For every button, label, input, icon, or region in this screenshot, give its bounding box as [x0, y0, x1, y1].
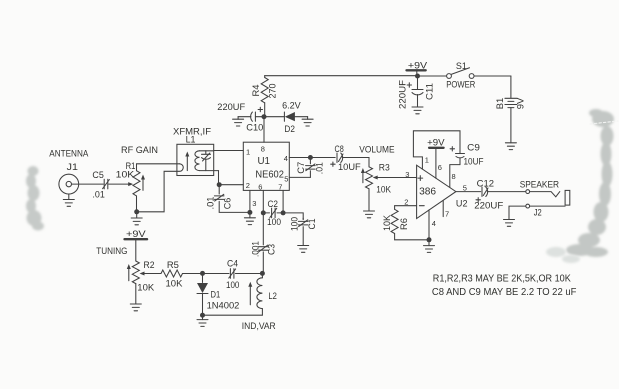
- svg-text:.01: .01: [206, 197, 217, 210]
- junction R1 bottom: [134, 209, 139, 214]
- svg-text:100: 100: [267, 217, 281, 228]
- transformer L1 tuning arrow: [186, 156, 188, 171]
- battery B1: [505, 97, 517, 99]
- svg-text:L2: L2: [268, 291, 277, 302]
- resistor R6: [391, 209, 398, 233]
- svg-text:C10: C10: [246, 123, 263, 134]
- wire tip contact to plug: [530, 192, 560, 197]
- ground R3: [364, 211, 375, 218]
- junction pin4/C7/C8: [308, 155, 313, 160]
- wire J1 to C5: [72, 183, 104, 185]
- svg-text:R3: R3: [379, 163, 390, 174]
- wiper R3 to U2 pin3: [373, 176, 378, 180]
- svg-text:C8 AND C9 MAY BE 2.2 TO 22 uF: C8 AND C9 MAY BE 2.2 TO 22 uF: [432, 287, 577, 298]
- junction pin3/C6: [247, 210, 252, 215]
- wire L1 to U1 pin1: [214, 150, 244, 152]
- svg-text:9V: 9V: [516, 97, 527, 109]
- svg-text:C1: C1: [307, 219, 318, 230]
- wire sleeve to ground: [509, 206, 526, 219]
- capacitor C1: [302, 218, 304, 219]
- svg-text:C3: C3: [267, 244, 278, 255]
- wire U2 pin7 stub: [442, 200, 444, 216]
- svg-text:6: 6: [438, 163, 442, 172]
- wire R3 bottom: [368, 189, 370, 211]
- wire R5 to D1 node: [183, 273, 230, 275]
- ghost watermark blob left: [26, 166, 44, 231]
- capacitor C7: [309, 158, 311, 164]
- power +9V bar R2: [125, 238, 148, 240]
- svg-text:S1: S1: [456, 61, 467, 72]
- wire junction to D2: [264, 116, 284, 118]
- diode D2 zener: [283, 112, 285, 121]
- svg-text:RF GAIN: RF GAIN: [121, 145, 158, 156]
- wire U2 pin1 gain loop: [413, 131, 460, 169]
- svg-text:8: 8: [261, 145, 265, 154]
- wire XFMR link return: [139, 164, 183, 212]
- svg-text:1N4002: 1N4002: [207, 301, 240, 312]
- wire pin4 node to C8: [310, 157, 335, 159]
- variable arrow R1: [142, 179, 144, 191]
- capacitor C8: [336, 153, 338, 163]
- svg-text:NE602: NE602: [255, 168, 284, 180]
- transformer L1 box: [177, 144, 214, 175]
- svg-text:VOLUME: VOLUME: [359, 144, 394, 155]
- variable arrow L2: [249, 286, 251, 305]
- ground U1 pin3: [244, 218, 255, 225]
- svg-text:R4: R4: [251, 85, 262, 97]
- capacitor C9: [456, 153, 465, 155]
- svg-text:2: 2: [246, 181, 250, 190]
- svg-text:6: 6: [258, 182, 262, 191]
- svg-text:C4: C4: [227, 258, 238, 269]
- svg-text:10K: 10K: [116, 170, 135, 181]
- potentiometer R1: [133, 171, 140, 196]
- capacitor C2: [263, 212, 283, 214]
- wire sleeve contact to plug: [530, 205, 566, 207]
- variable arrow R2: [128, 268, 130, 281]
- wire C8 to R3: [342, 158, 369, 167]
- wire C4 to L2 node: [235, 273, 262, 275]
- svg-text:6.2V: 6.2V: [282, 101, 301, 112]
- jack J2 plug body: [565, 190, 570, 205]
- svg-text:220UF: 220UF: [217, 102, 245, 113]
- svg-text:220UF: 220UF: [474, 201, 503, 212]
- wire U1 pin8 up: [263, 117, 265, 143]
- svg-text:4: 4: [432, 219, 436, 228]
- junction pin8/R4/C10/D2: [262, 114, 267, 119]
- junction D1 bottom: [200, 313, 205, 318]
- capacitor C10: [255, 116, 264, 118]
- inductor L2: [261, 274, 263, 278]
- wiper R2 to R5: [140, 272, 145, 276]
- svg-text:3: 3: [405, 170, 409, 179]
- transformer L1 winding: [195, 151, 200, 171]
- svg-text:5: 5: [284, 175, 288, 184]
- wire L1 bottom to node: [218, 171, 220, 185]
- IC U1 box: [243, 142, 289, 190]
- wire U1 pin4: [289, 157, 310, 159]
- ground J1: [68, 194, 70, 200]
- op-amp U2 triangle: [417, 165, 456, 218]
- connector J1: [59, 174, 79, 194]
- capacitor C5: [104, 179, 108, 189]
- capacitor C11: [417, 76, 419, 89]
- wire pin6 node to C3: [262, 213, 264, 245]
- jack J2 sleeve contact: [526, 204, 530, 208]
- svg-text:7: 7: [278, 182, 282, 191]
- ground J2: [504, 220, 515, 227]
- svg-text:C9: C9: [467, 143, 480, 154]
- capacitor C6: [218, 185, 220, 194]
- svg-text:U1: U1: [258, 155, 271, 167]
- svg-text:.001: .001: [251, 241, 262, 257]
- svg-text:C5: C5: [92, 170, 103, 181]
- svg-text:D2: D2: [284, 124, 295, 135]
- junction +9V/C11/S1: [415, 74, 420, 79]
- wire +9V rail R4 to switch node: [265, 75, 418, 77]
- svg-text:1: 1: [246, 148, 250, 157]
- svg-text:10K: 10K: [376, 184, 391, 195]
- jack J2 tip contact: [526, 190, 530, 194]
- svg-text:386: 386: [419, 185, 436, 197]
- minus input mark U2: [419, 205, 424, 207]
- svg-text:C8: C8: [335, 144, 344, 155]
- svg-text:ANTENNA: ANTENNA: [49, 149, 89, 160]
- svg-text:8: 8: [452, 172, 456, 181]
- svg-text:4: 4: [284, 154, 288, 163]
- svg-text:1: 1: [425, 156, 429, 165]
- wire pin7 node to C1: [283, 213, 303, 220]
- wire R1 top to XFMR link: [137, 164, 180, 171]
- svg-text:100: 100: [290, 217, 301, 231]
- wire R1 bottom: [136, 196, 138, 212]
- transformer L1 internal bottom wire: [200, 170, 219, 172]
- svg-text:10UF: 10UF: [338, 162, 361, 173]
- ground D1: [202, 315, 204, 319]
- svg-text:TUNING: TUNING: [96, 246, 127, 257]
- svg-text:100: 100: [226, 280, 239, 291]
- svg-text:SPEAKER: SPEAKER: [520, 180, 560, 191]
- svg-text:R1,R2,R3 MAY BE 2K,5K,OR 10K: R1,R2,R3 MAY BE 2K,5K,OR 10K: [433, 273, 571, 284]
- svg-text:10K: 10K: [166, 278, 184, 289]
- ground D2: [307, 117, 309, 120]
- svg-text:10K: 10K: [382, 214, 393, 231]
- svg-text:R2: R2: [144, 260, 155, 271]
- potentiometer R2: [132, 261, 139, 284]
- resistor R5: [161, 270, 182, 277]
- junction pin7/C2/C1: [281, 210, 286, 215]
- junction D1 top: [200, 271, 205, 276]
- ghost watermark blob right: [566, 109, 614, 257]
- svg-text:D1: D1: [211, 290, 221, 301]
- wire +9V to U2 pin6: [435, 149, 437, 178]
- svg-text:.01: .01: [92, 190, 104, 201]
- capacitor C12: [481, 187, 483, 197]
- wire switch to battery: [510, 76, 512, 98]
- svg-text:U2: U2: [456, 198, 468, 209]
- wire C9 to U2 pin8: [450, 165, 460, 188]
- svg-text:C6: C6: [223, 198, 234, 210]
- svg-text:R6: R6: [399, 218, 410, 230]
- wire C5 to R1 wiper: [109, 183, 129, 185]
- svg-text:IND,VAR: IND,VAR: [242, 321, 276, 332]
- wire battery to ground: [510, 108, 512, 143]
- svg-text:C7: C7: [296, 162, 307, 174]
- transformer L1 internal top wire: [200, 150, 214, 152]
- wire U1 pin6 down: [262, 190, 264, 213]
- svg-text:2: 2: [404, 197, 408, 206]
- power +9V bar main: [407, 69, 426, 71]
- capacitor C4: [230, 269, 234, 279]
- junction C3/C4/L2: [260, 271, 265, 276]
- svg-text:10K: 10K: [137, 283, 155, 294]
- svg-text:270: 270: [268, 84, 279, 99]
- ground C11: [412, 107, 423, 114]
- wire U2 pin2: [395, 206, 417, 210]
- wire C12 to jack tip: [487, 191, 526, 193]
- svg-text:10UF: 10UF: [464, 157, 484, 168]
- svg-text:.01: .01: [315, 162, 326, 174]
- svg-text:L1: L1: [186, 134, 196, 145]
- junction pin6/C2/C3: [261, 210, 266, 215]
- wire C6 to pin3 ground: [219, 201, 250, 212]
- wire U2 pin5 out: [456, 191, 481, 193]
- ground R2: [130, 304, 141, 311]
- potentiometer R3: [366, 167, 373, 189]
- ground R1: [136, 212, 138, 218]
- svg-text:3: 3: [252, 199, 256, 208]
- junction node L1/C6/pin2: [217, 182, 222, 187]
- resistor R4: [264, 76, 266, 78]
- wire U1 pin7 down: [282, 190, 284, 213]
- wire R6 bottom to pin4 node: [395, 234, 429, 240]
- svg-text:7: 7: [445, 210, 449, 219]
- wire U2 pin4: [428, 210, 430, 240]
- svg-text:C12: C12: [477, 179, 494, 190]
- svg-text:J1: J1: [67, 162, 78, 173]
- ground U2: [428, 240, 430, 246]
- plus input mark U2: [418, 176, 423, 181]
- junction R6/pin4/ground: [427, 237, 432, 242]
- diode D1 varactor: [202, 274, 204, 283]
- svg-text:J2: J2: [534, 207, 542, 218]
- ground B1: [505, 143, 516, 150]
- wire R2 bottom: [135, 284, 137, 304]
- svg-text:POWER: POWER: [446, 80, 475, 91]
- variable arrow R3: [362, 172, 364, 183]
- capacitor C3: [259, 247, 269, 251]
- switch S1: [418, 75, 447, 77]
- transformer L1 internal cap: [202, 151, 211, 171]
- wire U1 pin3 down: [249, 190, 251, 217]
- power +9V bar U2: [429, 147, 444, 149]
- wire C7 to U1 pin5: [289, 176, 310, 178]
- svg-text:220UF: 220UF: [398, 80, 409, 109]
- svg-text:B1: B1: [495, 98, 506, 110]
- ground C1: [298, 246, 309, 253]
- ground C10: [237, 117, 239, 120]
- wire node to U1 pin2: [219, 184, 243, 186]
- svg-text:C11: C11: [425, 83, 436, 100]
